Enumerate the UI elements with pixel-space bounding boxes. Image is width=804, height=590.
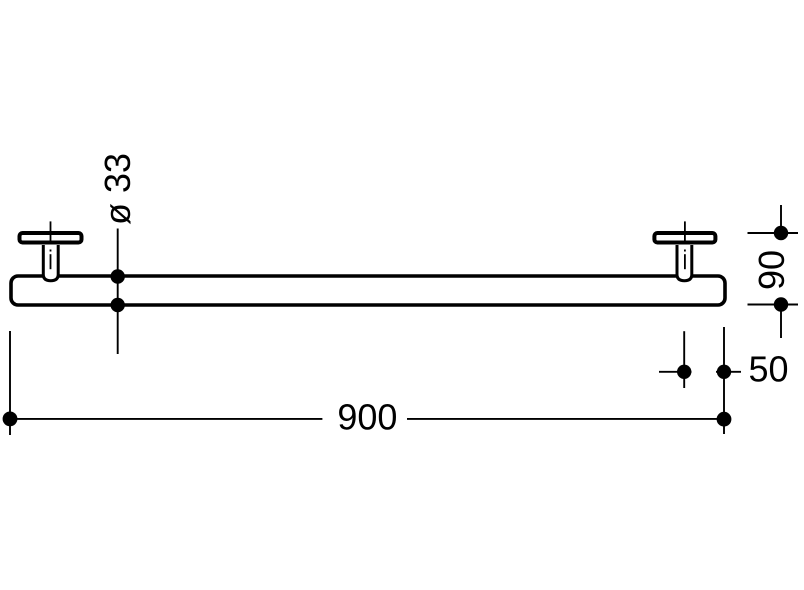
dimension 50 left tick [659,371,692,373]
dimension 900 left extension line [9,331,11,435]
diameter dot top [111,269,125,283]
dimension 90 upper extension [780,205,782,233]
dimension 900 right dot [717,412,732,427]
dimension 50 left extension line [683,331,685,388]
dimension 50 right dot [717,365,731,379]
svg-text:900: 900 [337,397,397,438]
diameter leader line [117,229,119,355]
svg-text:50: 50 [749,349,789,390]
left post [43,245,58,281]
left center line [50,221,52,269]
dimension 50 right tick [716,371,741,373]
right mounting plate [654,233,715,243]
right post [677,245,692,281]
left mounting plate [20,233,82,243]
towel bar tube [11,276,725,305]
dimension 900 line left segment [10,418,322,420]
dimension 50 right extension line [723,327,725,434]
svg-text:90: 90 [751,250,792,290]
dimension 90 upper dot [774,226,788,240]
dimension 90 upper tick [748,232,799,234]
dimension 50 left dot [677,365,691,379]
dimension 90 lower dot [774,297,788,311]
dimension 900 left dot [3,412,18,427]
dimension 90 lower tick [748,304,799,306]
dimension 90 lower extension [780,305,782,339]
dimension 900 line right segment [407,418,724,420]
diameter dot bottom [111,298,125,312]
right center line [684,221,686,269]
svg-text:ø 33: ø 33 [97,153,138,225]
